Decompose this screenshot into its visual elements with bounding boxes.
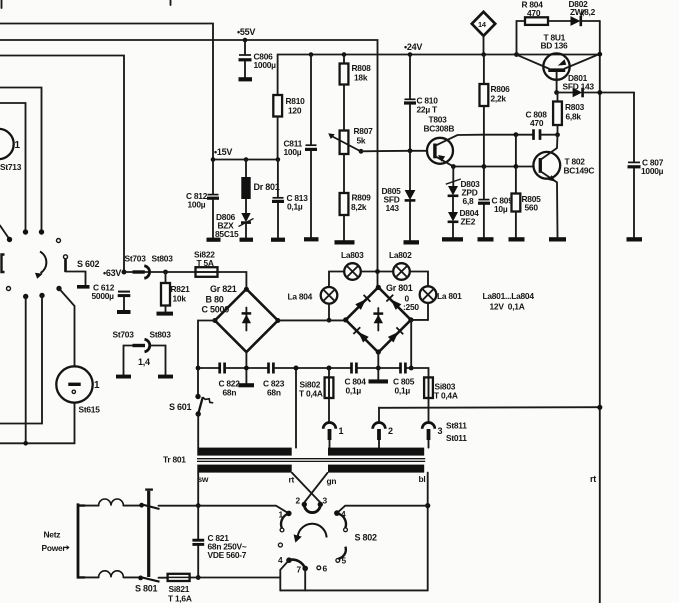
svg-text:18k: 18k (354, 73, 368, 83)
wire rt/gn crossing to pins 2 3 (292, 473, 328, 503)
connector pair St703 St803 upper (125, 254, 174, 279)
resistor R809 (335, 193, 372, 245)
capacitor C821 (192, 533, 246, 560)
wire St615 top lead (59, 289, 75, 367)
transistor T802 (533, 135, 594, 242)
diode D805 (382, 151, 420, 245)
node on St615 line (23, 441, 28, 446)
svg-text:sw: sw (198, 474, 209, 484)
svg-text:T 0,4A: T 0,4A (299, 389, 323, 399)
resistor R803 (553, 93, 585, 138)
switch S802 center hole (278, 543, 282, 547)
resistor R821 (157, 270, 191, 316)
svg-text::250: :250 (403, 302, 419, 312)
switch S801 bottom pole (135, 576, 168, 594)
capacitor C805 (393, 363, 415, 396)
capacitor C811 (284, 52, 319, 241)
svg-text:T 0,4A: T 0,4A (434, 391, 458, 401)
wire lamp row (329, 272, 428, 288)
svg-text:St803: St803 (150, 330, 172, 340)
svg-text:gn: gn (327, 476, 337, 486)
svg-text:•15V: •15V (214, 147, 232, 157)
connector arc pin 1 (323, 423, 343, 448)
fuse Si802 (299, 366, 333, 423)
wire pin2 to rt line (379, 406, 600, 409)
wire sw column (197, 473, 199, 578)
diode Gr801 upper-right (391, 299, 402, 310)
wire AC link Gr821 to Gr801 (278, 319, 346, 321)
svg-text:3: 3 (323, 496, 328, 506)
node +55V (243, 38, 248, 43)
transformer Tr801 (163, 448, 425, 486)
wire mains top with filter loops (85, 499, 140, 506)
diode Gr801 lower-right (388, 332, 399, 343)
svg-text:14: 14 (478, 20, 487, 29)
resistor R808 (340, 52, 372, 130)
wire Gr801 right to La801 (411, 319, 428, 321)
svg-text:BC308B: BC308B (424, 124, 455, 134)
svg-text:St803: St803 (152, 254, 174, 264)
svg-text:R803: R803 (565, 102, 585, 112)
svg-text:B 80: B 80 (206, 295, 224, 305)
svg-text:85C15: 85C15 (215, 229, 239, 239)
svg-text:2: 2 (296, 496, 301, 506)
diode D801 (554, 73, 634, 97)
svg-text:R821: R821 (171, 284, 191, 294)
svg-text:SFD 143: SFD 143 (563, 82, 595, 92)
connector St615 (56, 366, 100, 414)
svg-text:22µ T: 22µ T (417, 105, 438, 115)
Gr821 bottom stem to ground (239, 352, 255, 387)
svg-text:470: 470 (527, 8, 541, 18)
resistor R810 (273, 95, 305, 162)
connector arc pin 2 (373, 408, 393, 448)
svg-text:St011: St011 (446, 433, 467, 443)
svg-text:S 802: S 802 (355, 533, 378, 543)
lamp La802 (389, 250, 412, 280)
svg-text:10µ: 10µ (494, 204, 508, 214)
capacitor C813 (271, 160, 308, 242)
svg-text:R807: R807 (354, 126, 374, 136)
svg-text:Si821: Si821 (169, 584, 190, 594)
svg-text:ZE2: ZE2 (461, 217, 476, 227)
lamp La804 (288, 287, 338, 323)
transistor T8U1 BD136 (517, 33, 603, 93)
switch S601 (169, 394, 213, 448)
wire S602 pin down-left (25, 297, 27, 444)
switch S602 contact pins (0, 226, 62, 300)
zener D804 (442, 208, 479, 242)
fuse Si803 (424, 377, 458, 422)
capacitor C806 (239, 40, 277, 81)
svg-text:5k: 5k (357, 136, 366, 146)
switch S802 pin 5 (336, 547, 347, 566)
switch S802 pins 4b and 7 (278, 555, 308, 590)
svg-text:1,4: 1,4 (138, 357, 150, 367)
switch S802 pins 2 3 (296, 496, 328, 513)
zener D802 (569, 0, 600, 26)
mains plug Netz (42, 503, 86, 578)
svg-text:La803: La803 (341, 250, 364, 260)
wire T803 emitter line (453, 166, 534, 168)
switch S602 rotor arrow (40, 252, 46, 274)
svg-text:C 5000: C 5000 (202, 305, 230, 315)
connector pair St703 St803 lower (113, 330, 174, 379)
capacitor C804 (345, 363, 367, 396)
svg-text:rt: rt (289, 475, 295, 485)
svg-text:•24V: •24V (404, 42, 422, 52)
svg-text:BD 136: BD 136 (541, 41, 568, 51)
node lamp row / Gr801 top column (375, 269, 380, 274)
svg-text:6: 6 (323, 564, 328, 574)
fuse Si821 (168, 574, 281, 603)
choke Dr801 (241, 157, 279, 212)
svg-text:R810: R810 (286, 96, 306, 106)
switch S802 pin 6 (317, 564, 328, 574)
wire S602 pin down to off-page (0, 296, 42, 424)
svg-text:0,1µ: 0,1µ (395, 386, 411, 396)
svg-text:•63V: •63V (103, 268, 121, 278)
svg-text:100µ: 100µ (284, 147, 302, 157)
wire stub top-left (1, 0, 3, 8)
wire stub top-mid (170, 0, 172, 5)
svg-text:St703: St703 (113, 330, 135, 340)
svg-text:La801...La804: La801...La804 (483, 291, 535, 301)
svg-text:S 801: S 801 (135, 584, 158, 594)
svg-text:Netz: Netz (44, 530, 61, 540)
svg-text:La 801: La 801 (437, 291, 462, 301)
svg-text:10k: 10k (173, 294, 187, 304)
wire mains bottom with filter loops (85, 571, 139, 578)
svg-text:470: 470 (530, 118, 544, 128)
Gr801 bottom stem to ground (369, 352, 389, 384)
transistor T803 (424, 115, 483, 167)
connector St713 (0, 129, 22, 172)
svg-text:rt: rt (590, 474, 596, 484)
wire right vertical rt line (599, 21, 601, 603)
test point diamond 14 (472, 12, 495, 57)
wire bl column (427, 473, 429, 591)
svg-text:ZW,8,2: ZW,8,2 (570, 7, 596, 17)
bridge rectifier Gr801 (343, 283, 419, 355)
wire left nested corner B (0, 103, 26, 232)
switch S802 pin 1 (198, 506, 291, 532)
wire (274, 367, 352, 369)
lamp La801 (420, 286, 462, 320)
connector bracket left edge (2, 255, 5, 273)
switch S801 linkage (147, 491, 150, 577)
lamp La803 (341, 250, 364, 280)
capacitor C808 (514, 110, 558, 140)
svg-text:1: 1 (94, 380, 100, 391)
svg-text:100µ: 100µ (188, 200, 206, 210)
wire bottom loop (280, 589, 427, 591)
svg-text:St713: St713 (0, 162, 22, 172)
zener D803 (446, 167, 480, 212)
svg-text:R809: R809 (352, 193, 372, 203)
svg-text:R806: R806 (491, 84, 511, 94)
svg-text:12V 0,1A: 12V 0,1A (490, 302, 525, 312)
wire (406, 368, 429, 377)
svg-text:120: 120 (288, 106, 302, 116)
switch S802 rotor arrow (298, 524, 327, 538)
wire T803 collector line to C808 (482, 134, 533, 136)
diode Gr801 center (377, 308, 379, 331)
capacitor C823 (263, 363, 285, 398)
svg-text:R808: R808 (352, 63, 372, 73)
wire C808 node to base node (515, 135, 517, 167)
svg-text:St811: St811 (446, 421, 467, 431)
svg-text:1: 1 (279, 510, 284, 520)
svg-text:143: 143 (386, 203, 400, 213)
node 63V (122, 270, 127, 275)
resistor R805 (509, 166, 542, 241)
capacitor C810 (404, 52, 438, 153)
wire +15V feed: top line to C812 node (0, 24, 213, 160)
wire Gr801 right corner down to common (410, 320, 412, 368)
svg-text:Power: Power (42, 543, 67, 553)
svg-text:0,1µ: 0,1µ (287, 202, 303, 212)
svg-text:8,2k: 8,2k (351, 202, 367, 212)
diode Gr801 upper-left (355, 299, 366, 310)
svg-text:6,8: 6,8 (463, 196, 474, 206)
bridge rectifier Gr821 (202, 284, 281, 352)
svg-text:0,1µ: 0,1µ (346, 386, 362, 396)
node S601 column on y368 (196, 366, 201, 371)
svg-text:1000µ: 1000µ (254, 60, 277, 70)
svg-text:S 602: S 602 (77, 259, 100, 269)
svg-text:4: 4 (341, 509, 346, 519)
svg-text:St615: St615 (79, 405, 101, 415)
wire common line y368 (198, 367, 219, 369)
wire (225, 367, 268, 369)
wire base line R807 wiper to T803 (361, 150, 427, 153)
svg-text:1: 1 (339, 426, 344, 436)
svg-text:560: 560 (525, 203, 539, 213)
capacitor C807 (627, 93, 664, 242)
wire +24V rail (278, 55, 600, 96)
potentiometer R807 (328, 126, 373, 193)
svg-text:6,8k: 6,8k (566, 112, 582, 122)
resistor R804 (514, 0, 570, 57)
svg-text:Gr 821: Gr 821 (210, 284, 237, 294)
wire 63V line from left (0, 56, 124, 273)
diode Gr801 lower-left (358, 332, 369, 343)
wire (357, 367, 401, 369)
svg-text:68n: 68n (223, 388, 237, 398)
zener D806 (215, 212, 254, 242)
capacitor C812 (186, 157, 221, 242)
wire +55V rail to Gr801 top (0, 40, 378, 287)
svg-text:bl: bl (419, 474, 426, 484)
wire Gr821 left corner to S601 column (198, 321, 215, 397)
svg-text:3: 3 (438, 426, 443, 436)
svg-text:4: 4 (278, 555, 283, 565)
svg-text:VDE 560-7: VDE 560-7 (208, 550, 247, 560)
svg-text:T 1,6A: T 1,6A (168, 594, 192, 603)
svg-text:7: 7 (297, 565, 302, 575)
capacitor C822 (219, 363, 241, 398)
svg-text:5000µ: 5000µ (92, 291, 115, 301)
wire +15V line (213, 159, 278, 161)
connector arc pin 3 (422, 422, 442, 447)
wire left nested corner A (0, 88, 42, 233)
capacitor C612 (92, 283, 131, 315)
svg-text:1: 1 (15, 140, 21, 151)
svg-text:La802: La802 (389, 250, 412, 260)
svg-text:2: 2 (388, 426, 393, 436)
switch S602 moving contact (64, 255, 100, 289)
resistor R806 (480, 55, 511, 169)
wire St615 bottom line (0, 403, 75, 444)
svg-text:Dr 801: Dr 801 (254, 182, 280, 192)
svg-text:St703: St703 (125, 254, 147, 264)
fuse Si822 (194, 250, 246, 290)
svg-text:BC149C: BC149C (564, 166, 595, 176)
svg-text:La 804: La 804 (288, 292, 313, 302)
svg-text:68n: 68n (267, 388, 281, 398)
svg-text:5: 5 (342, 556, 347, 566)
capacitor C809 (478, 167, 514, 242)
svg-text:2,2k: 2,2k (491, 94, 507, 104)
switch S802 pin 4 top (334, 506, 428, 532)
switch S801 top pole (139, 503, 198, 509)
svg-text:1000µ: 1000µ (641, 166, 664, 176)
wire winding stem left secondary (295, 368, 297, 448)
svg-text:S 601: S 601 (169, 402, 192, 412)
svg-text:Tr 801: Tr 801 (163, 455, 186, 465)
svg-text:Gr 801: Gr 801 (386, 283, 413, 293)
svg-text:•55V: •55V (237, 27, 255, 37)
wire 63V to fuse (124, 271, 196, 273)
